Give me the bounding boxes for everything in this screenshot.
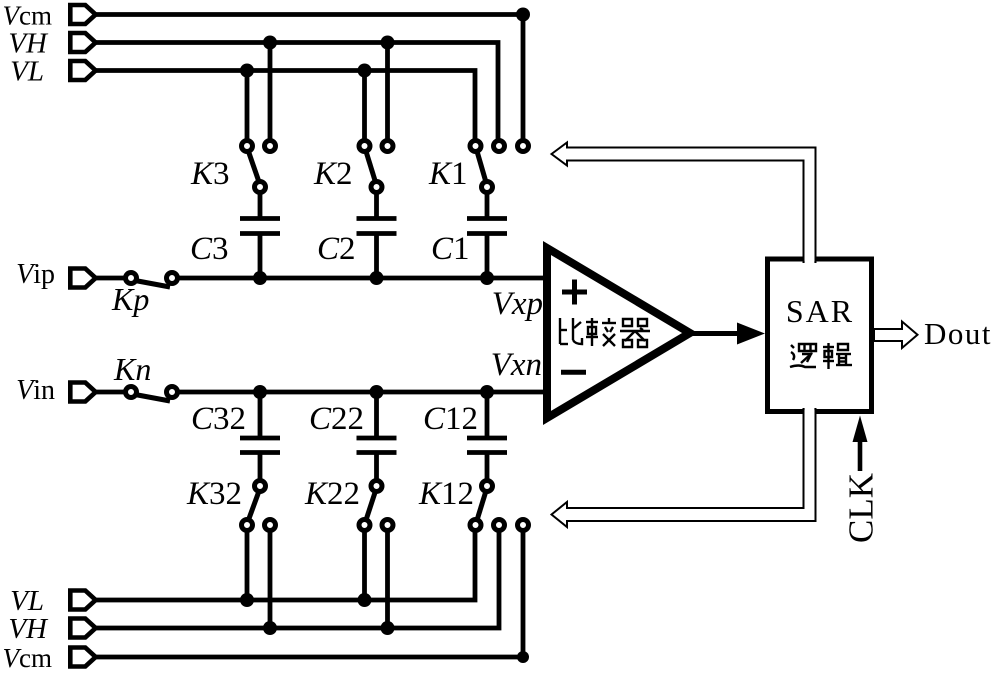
svg-text:C2: C2 <box>317 231 356 267</box>
svg-text:K32: K32 <box>186 476 242 512</box>
svg-text:Dout: Dout <box>924 316 992 351</box>
svg-text:SAR: SAR <box>786 293 854 329</box>
svg-text:K12: K12 <box>418 476 474 512</box>
svg-text:Vin: Vin <box>16 375 55 406</box>
svg-text:C22: C22 <box>309 401 364 437</box>
svg-text:K3: K3 <box>190 156 230 192</box>
svg-text:Vxp: Vxp <box>492 286 543 322</box>
svg-text:VH: VH <box>8 613 49 645</box>
svg-text:K22: K22 <box>304 476 360 512</box>
svg-text:Kp: Kp <box>111 281 149 317</box>
svg-text:Vcm: Vcm <box>3 1 53 31</box>
svg-text:Vxn: Vxn <box>491 347 542 383</box>
svg-text:Vip: Vip <box>16 259 55 290</box>
svg-text:C3: C3 <box>190 231 229 267</box>
svg-text:Vcm: Vcm <box>3 643 53 673</box>
svg-text:VL: VL <box>10 56 44 88</box>
svg-text:C32: C32 <box>191 401 246 437</box>
svg-text:K1: K1 <box>428 156 468 192</box>
svg-text:C12: C12 <box>423 401 478 437</box>
svg-text:C1: C1 <box>431 231 470 267</box>
svg-text:K2: K2 <box>313 156 353 192</box>
svg-text:CLK: CLK <box>842 473 881 543</box>
svg-text:Kn: Kn <box>113 351 151 387</box>
